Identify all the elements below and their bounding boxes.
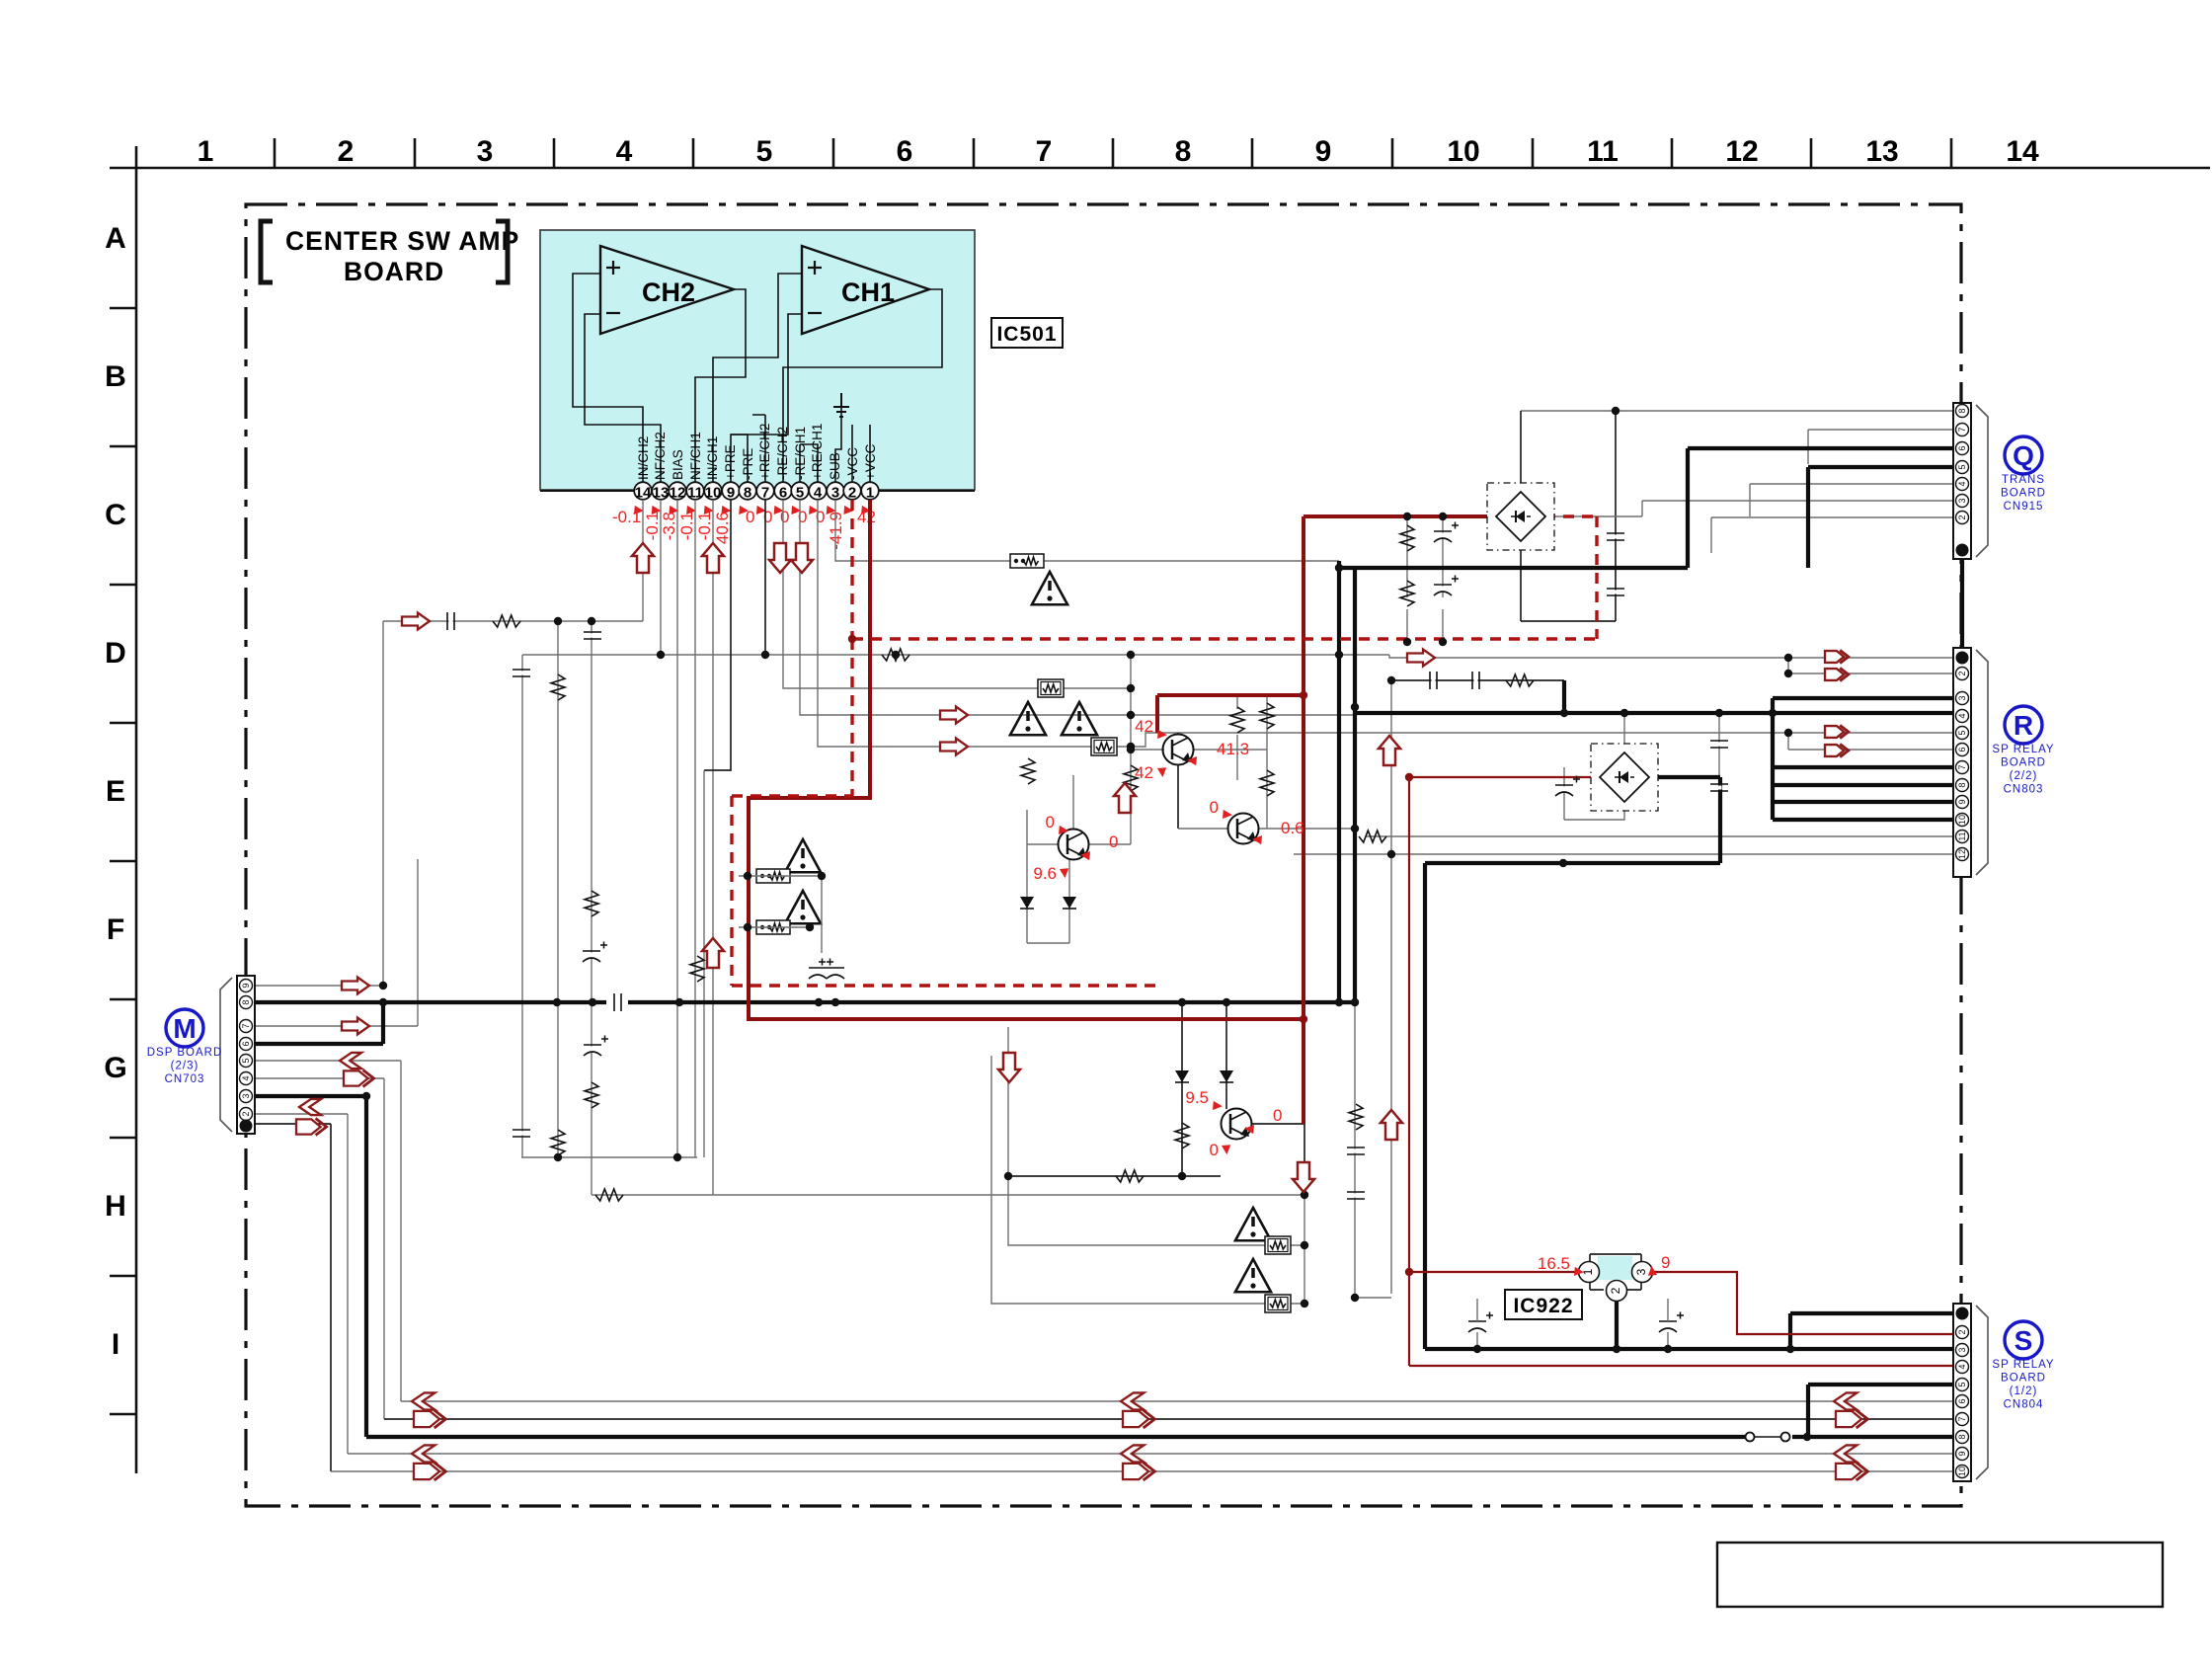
svg-text:I: I <box>112 1328 119 1361</box>
svg-text:+RE/CH1: +RE/CH1 <box>810 424 825 480</box>
svg-text:0: 0 <box>746 508 754 526</box>
svg-text:CH2: CH2 <box>642 277 695 307</box>
svg-text:(2/2): (2/2) <box>2010 770 2038 782</box>
svg-text:2: 2 <box>1609 1287 1622 1294</box>
svg-text:2: 2 <box>241 1111 251 1116</box>
svg-text:0: 0 <box>1210 1141 1219 1159</box>
svg-text:-PRE: -PRE <box>741 448 755 480</box>
svg-text:0: 0 <box>1046 813 1055 831</box>
svg-text:5: 5 <box>241 1058 251 1063</box>
svg-text:4: 4 <box>616 135 633 168</box>
svg-text:6: 6 <box>1957 747 1967 752</box>
svg-text:2: 2 <box>338 135 355 168</box>
svg-text:TRANS: TRANS <box>2002 474 2045 486</box>
svg-text:6: 6 <box>897 135 913 168</box>
svg-text:+RE/CH2: +RE/CH2 <box>757 424 772 480</box>
svg-text:13: 13 <box>653 485 670 502</box>
svg-text:1: 1 <box>197 135 214 168</box>
svg-text:8: 8 <box>1957 782 1967 787</box>
svg-text:4: 4 <box>241 1075 251 1080</box>
svg-text:0.6: 0.6 <box>1281 819 1304 837</box>
svg-text:3: 3 <box>241 1093 251 1098</box>
svg-text:4: 4 <box>1957 481 1967 486</box>
svg-text:CENTER SW AMP: CENTER SW AMP <box>285 226 519 256</box>
svg-text:+PRE: +PRE <box>723 444 738 480</box>
svg-text:10: 10 <box>1957 815 1967 825</box>
svg-text:-0.1: -0.1 <box>612 508 641 526</box>
svg-text:7: 7 <box>1957 764 1967 769</box>
svg-text:41.3: 41.3 <box>1217 740 1249 758</box>
svg-text:8: 8 <box>1957 408 1967 413</box>
svg-text:11: 11 <box>1957 831 1967 840</box>
svg-text:BOARD: BOARD <box>2001 1373 2046 1385</box>
svg-text:Q: Q <box>2013 440 2034 471</box>
svg-text:5: 5 <box>1957 1382 1967 1386</box>
svg-text:BIAS: BIAS <box>671 449 685 480</box>
svg-text:3: 3 <box>1957 498 1967 503</box>
svg-text:-0.1: -0.1 <box>695 512 714 540</box>
svg-text:2: 2 <box>848 485 856 502</box>
svg-text:+VCC: +VCC <box>863 443 878 480</box>
svg-text:12: 12 <box>670 485 686 502</box>
svg-text:H: H <box>105 1190 126 1223</box>
svg-text:0: 0 <box>1109 832 1118 851</box>
svg-text:BOARD: BOARD <box>2001 488 2046 500</box>
svg-text:12: 12 <box>1957 849 1967 859</box>
svg-text:16.5: 16.5 <box>1538 1254 1570 1273</box>
svg-text:NF/CH2: NF/CH2 <box>653 432 668 480</box>
svg-text:8: 8 <box>1175 135 1192 168</box>
svg-text:6: 6 <box>1957 1398 1967 1403</box>
svg-text:6: 6 <box>779 485 787 502</box>
svg-text:M: M <box>173 1013 196 1044</box>
svg-text:5: 5 <box>1957 730 1967 735</box>
svg-text:SP RELAY: SP RELAY <box>1992 1359 2054 1371</box>
svg-text:-VCC: -VCC <box>845 447 860 480</box>
svg-text:3: 3 <box>1957 1347 1967 1352</box>
svg-text:B: B <box>105 360 126 393</box>
svg-text:-RE/CH2: -RE/CH2 <box>775 427 790 480</box>
svg-text:7: 7 <box>1957 427 1967 432</box>
svg-text:2: 2 <box>1957 1329 1967 1334</box>
svg-text:CN915: CN915 <box>2004 501 2044 513</box>
svg-text:R: R <box>2014 710 2033 741</box>
svg-text:42: 42 <box>1135 763 1153 782</box>
svg-text:NF/CH1: NF/CH1 <box>688 432 703 480</box>
svg-text:IN/CH1: IN/CH1 <box>705 436 720 480</box>
svg-text:42: 42 <box>857 508 876 526</box>
svg-text:-0.1: -0.1 <box>677 512 696 540</box>
svg-text:CN803: CN803 <box>2004 784 2044 796</box>
svg-text:3: 3 <box>477 135 494 168</box>
svg-text:(2/3): (2/3) <box>171 1061 199 1072</box>
svg-text:0: 0 <box>1210 798 1219 817</box>
svg-text:14: 14 <box>2006 135 2039 168</box>
svg-text:10: 10 <box>1957 1466 1967 1476</box>
svg-text:5: 5 <box>796 485 804 502</box>
svg-text:8: 8 <box>744 485 751 502</box>
svg-text:13: 13 <box>1865 135 1898 168</box>
svg-text:0: 0 <box>1273 1106 1282 1125</box>
svg-text:IN/CH2: IN/CH2 <box>636 436 651 480</box>
svg-text:7: 7 <box>761 485 769 502</box>
svg-text:9: 9 <box>727 485 735 502</box>
svg-text:DSP BOARD: DSP BOARD <box>147 1047 223 1059</box>
svg-text:CN804: CN804 <box>2004 1399 2044 1411</box>
svg-text:5: 5 <box>1957 464 1967 469</box>
svg-text:7: 7 <box>1957 1416 1967 1421</box>
svg-text:SUB: SUB <box>828 452 842 480</box>
svg-text:4: 4 <box>1957 713 1967 718</box>
svg-text:BOARD: BOARD <box>2001 757 2046 769</box>
svg-text:F: F <box>107 913 124 946</box>
svg-text:C: C <box>105 499 126 531</box>
svg-text:9: 9 <box>1661 1253 1670 1272</box>
svg-text:8: 8 <box>241 999 251 1004</box>
svg-text:11: 11 <box>687 485 703 502</box>
svg-text:5: 5 <box>756 135 773 168</box>
svg-text:9: 9 <box>1957 1451 1967 1456</box>
svg-text:3: 3 <box>831 485 839 502</box>
svg-text:CN703: CN703 <box>165 1073 205 1085</box>
svg-text:E: E <box>106 775 125 808</box>
svg-text:0: 0 <box>780 508 789 526</box>
svg-text:CH1: CH1 <box>841 277 895 307</box>
svg-text:-RE/CH1: -RE/CH1 <box>793 427 808 480</box>
svg-text:2: 2 <box>1957 671 1967 675</box>
svg-text:3: 3 <box>1957 695 1967 700</box>
svg-text:IC501: IC501 <box>996 323 1057 346</box>
svg-text:6: 6 <box>1957 445 1967 450</box>
svg-text:BOARD: BOARD <box>344 257 444 286</box>
svg-text:40.6: 40.6 <box>713 512 732 544</box>
svg-text:9: 9 <box>1957 799 1967 804</box>
svg-text:7: 7 <box>1036 135 1053 168</box>
svg-text:8: 8 <box>1957 1434 1967 1439</box>
svg-text:SP RELAY: SP RELAY <box>1992 744 2054 755</box>
svg-text:(1/2): (1/2) <box>2010 1386 2038 1397</box>
svg-text:6: 6 <box>241 1041 251 1046</box>
svg-text:3: 3 <box>1634 1268 1648 1275</box>
svg-text:-3.8: -3.8 <box>660 512 678 540</box>
svg-text:D: D <box>105 637 126 670</box>
svg-text:14: 14 <box>635 485 652 502</box>
svg-text:9.6: 9.6 <box>1033 864 1057 883</box>
svg-text:2: 2 <box>1957 515 1967 519</box>
svg-text:42: 42 <box>1135 717 1153 736</box>
svg-text:S: S <box>2014 1325 2033 1356</box>
svg-text:A: A <box>105 222 126 255</box>
svg-text:12: 12 <box>1725 135 1758 168</box>
svg-text:4: 4 <box>1957 1364 1967 1369</box>
svg-text:11: 11 <box>1587 135 1619 168</box>
svg-text:9: 9 <box>1315 135 1332 168</box>
svg-text:IC922: IC922 <box>1513 1295 1573 1317</box>
svg-text:10: 10 <box>1447 135 1479 168</box>
svg-text:9: 9 <box>241 983 251 988</box>
svg-text:10: 10 <box>705 485 722 502</box>
svg-text:4: 4 <box>814 485 823 502</box>
svg-text:9.5: 9.5 <box>1185 1088 1209 1107</box>
svg-text:1: 1 <box>866 485 874 502</box>
svg-text:G: G <box>104 1052 126 1084</box>
svg-text:7: 7 <box>241 1023 251 1028</box>
